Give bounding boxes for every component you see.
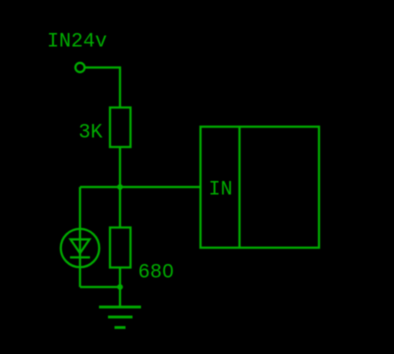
wire resistor R2 bottom through node B to ground xyxy=(119,268,121,308)
node A junction dot xyxy=(117,184,123,190)
svg-text:3K: 3K xyxy=(79,122,103,145)
svg-text:IN24v: IN24v xyxy=(47,31,107,54)
wire LED D1 bottom to node B xyxy=(80,286,120,288)
wire resistor R1 bottom to node A xyxy=(119,147,121,187)
resistor R1 3K body xyxy=(110,108,131,148)
node B junction dot xyxy=(117,284,123,290)
LED D1 triangle xyxy=(71,239,90,253)
resistor R2 680 body xyxy=(110,228,131,268)
wire node A to resistor R2 top xyxy=(119,187,121,228)
IC U1 box xyxy=(201,127,320,248)
LED D1 cathode bar xyxy=(70,256,90,258)
ground bar 1 xyxy=(99,306,141,309)
wire node A down-left to LED D1 xyxy=(79,187,81,229)
mask to make the zero of 680 dotless like target font xyxy=(166,269,170,273)
LED D1 anode/cathode vertical wire xyxy=(79,229,81,287)
ground bar 2 xyxy=(108,316,133,319)
wire terminal to resistor R1 top xyxy=(85,68,120,108)
wire node A horizontal to IN box xyxy=(80,186,200,188)
ground bar 3 xyxy=(115,326,126,329)
IC U1 pin divider xyxy=(238,127,240,248)
terminal pin IN24v xyxy=(75,63,84,72)
svg-text:IN: IN xyxy=(209,179,233,202)
LED D1 circle xyxy=(61,229,99,267)
